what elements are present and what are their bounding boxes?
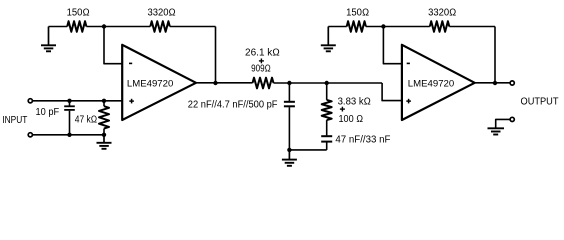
resistor 47 kΩ (input shunt): [99, 101, 109, 135]
svg-text:INPUT: INPUT: [2, 115, 27, 126]
node: shunt cap top junction dot: [287, 81, 291, 85]
wire: feedback down to U2 output node: [494, 27, 496, 84]
ground G5 (output terminal ground): [488, 128, 505, 134]
capacitor 47nF//33nF (zobel branch): [321, 136, 332, 150]
wire: 150Ω to node B: [366, 26, 430, 28]
svg-text:47 kΩ: 47 kΩ: [75, 115, 98, 126]
label + (series): [259, 59, 264, 64]
node: 47k bottom junction dot: [102, 133, 106, 137]
node: cap bottom junction dot: [67, 133, 71, 137]
svg-text:10 pF: 10 pF: [36, 107, 60, 118]
resistor 26.1kΩ+909Ω (series interstage): [253, 78, 274, 89]
U2 minus input label: [407, 62, 410, 64]
svg-text:OUTPUT: OUTPUT: [521, 97, 559, 108]
svg-text:LME49720: LME49720: [408, 79, 454, 90]
wire: node A down to inverting input of U1: [104, 27, 123, 64]
wire: step down into U2 + input: [382, 83, 403, 101]
node: U1 output junction dot: [213, 81, 217, 85]
OUTPUT terminal (open circle): [510, 81, 514, 85]
wire: 909Ω to stage 2 + input corner: [274, 82, 383, 84]
node: cap top junction dot: [67, 99, 71, 103]
OUTPUT ground terminal (open circle): [510, 117, 514, 121]
wire: 3320Ω to feedback corner (stage 2): [449, 26, 495, 28]
wire: filter bottom rail: [289, 149, 326, 151]
INPUT terminal bottom (open circle): [28, 133, 32, 137]
svg-text:22 nF//4.7 nF//500 pF: 22 nF//4.7 nF//500 pF: [188, 100, 278, 111]
wire: output ground terminal to ground: [496, 119, 510, 128]
op-amp U2 LME49720 triangle: [402, 45, 475, 120]
wire: ground to 150Ω (stage 1): [49, 26, 68, 28]
svg-text:26.1 kΩ: 26.1 kΩ: [245, 47, 280, 58]
svg-text:150Ω: 150Ω: [346, 8, 369, 19]
U2 plus input label: [406, 99, 411, 104]
resistor 150Ω (stage 1): [67, 21, 86, 32]
op-amp U1 LME49720 triangle: [122, 45, 196, 120]
svg-text:3.83 kΩ: 3.83 kΩ: [338, 96, 371, 107]
resistor 3320Ω (stage 1 feedback): [150, 21, 170, 32]
node B junction dot (stage 2 inverting node): [381, 24, 385, 28]
node: U2 output junction dot: [493, 81, 497, 85]
svg-text:47 nF//33 nF: 47 nF//33 nF: [335, 135, 390, 146]
capacitor 10 pF (shunt across input): [64, 101, 75, 135]
resistor 3.83kΩ+100Ω (zobel branch): [322, 83, 332, 135]
svg-text:3320Ω: 3320Ω: [428, 7, 456, 18]
INPUT terminal top (open circle): [28, 99, 32, 103]
U1 plus input label: [129, 99, 134, 104]
resistor 150Ω (stage 2): [347, 21, 366, 32]
wire: input bottom rail: [33, 134, 104, 136]
wire: U2 output to OUTPUT terminal: [474, 82, 510, 84]
wire: ground to 150Ω (stage 2): [328, 26, 346, 28]
label + (zobel series): [340, 107, 345, 112]
node A junction dot (stage 1 inverting node): [102, 24, 106, 28]
U1 minus input label: [129, 62, 132, 64]
ground G1 (stage 1 input resistor ground): [41, 27, 56, 52]
wire: node B down to inverting input of U2: [383, 27, 402, 64]
ground G2 (stage 2 input resistor ground): [321, 27, 336, 52]
wire: input top rail to U1 + input: [33, 100, 123, 102]
wire: U1 output to 909Ω: [195, 82, 253, 84]
svg-text:100 Ω: 100 Ω: [339, 114, 364, 125]
node: 47k top junction dot: [102, 99, 106, 103]
wire: 3320Ω to feedback corner: [170, 26, 216, 28]
ground G3 (input network ground): [97, 135, 112, 149]
svg-text:150Ω: 150Ω: [67, 8, 90, 19]
svg-text:909Ω: 909Ω: [251, 64, 271, 75]
svg-text:3320Ω: 3320Ω: [147, 7, 175, 18]
resistor 3320Ω (stage 2 feedback): [430, 21, 450, 32]
svg-text:LME49720: LME49720: [127, 79, 173, 90]
ground G4 (filter ground): [282, 150, 297, 166]
capacitor 22nF//4.7nF//500pF (shunt): [284, 83, 295, 150]
node: filter ground junction dot: [287, 148, 291, 152]
node: filter branch 2 top junction dot: [325, 81, 329, 85]
wire: feedback down to op-amp 1 output node: [215, 27, 217, 84]
wire: 150Ω to node A: [86, 26, 150, 28]
